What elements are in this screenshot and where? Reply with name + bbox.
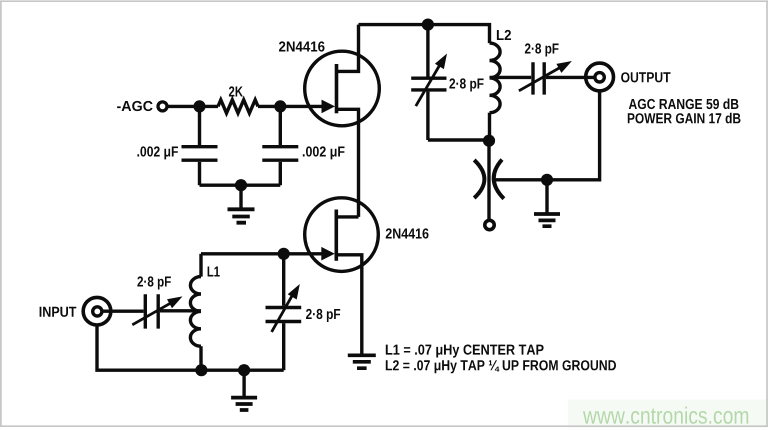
capacitor CV4 bottom lead bbox=[282, 323, 285, 370]
capacitor CV2 arrow bbox=[519, 67, 561, 91]
node B (gate node Q1) bbox=[274, 100, 286, 112]
wire INPUT ground bus bbox=[97, 325, 284, 370]
capacitor CV4 plates bbox=[266, 308, 302, 322]
capacitor CV3 arrow bbox=[132, 302, 172, 325]
ground G4 bars bbox=[231, 398, 257, 410]
wire L1 top to node G bbox=[201, 252, 284, 255]
label INPUT bbox=[40, 307, 77, 317]
label POWER GAIN 17 dB bbox=[628, 113, 741, 124]
wire L2 link line down bbox=[487, 141, 490, 221]
node H (L1 bottom node) bbox=[195, 364, 207, 376]
Q1 gate arrow bbox=[322, 100, 336, 114]
capacitor CV1 plates bbox=[411, 78, 446, 90]
label 2K bbox=[229, 86, 243, 96]
node G (gate node Q2) bbox=[278, 248, 290, 260]
Q2 drain lead bbox=[336, 215, 358, 218]
watermark band bbox=[568, 399, 768, 427]
terminal OUTPUT inner bbox=[595, 73, 604, 82]
wire output down to link bbox=[496, 91, 600, 180]
resistor R1 2K bbox=[218, 100, 258, 113]
label 2-8 pF (CV1) bbox=[449, 78, 483, 91]
wire CV3 to L1 bbox=[160, 309, 201, 312]
Q1 drain lead bbox=[337, 25, 359, 72]
note L1 spec bbox=[386, 345, 544, 358]
capacitor CV2 plates bbox=[533, 62, 544, 94]
inductor L1 coil bbox=[190, 277, 201, 347]
capacitor CV3 plates bbox=[145, 294, 158, 328]
transistor Q1 2N4416 body bbox=[305, 51, 380, 126]
wire node G to Q2 gate bbox=[284, 252, 323, 255]
capacitor CV1 top lead bbox=[426, 25, 429, 77]
node I (input ground node) bbox=[238, 364, 250, 376]
wire resistor R1 to node B bbox=[258, 105, 280, 108]
terminal -AGC bbox=[158, 102, 167, 111]
label 2-8 pF (CV4) bbox=[306, 309, 340, 322]
capacitor C2 bottom lead bbox=[279, 162, 282, 185]
wire CV1 to node E bbox=[428, 138, 489, 141]
Q1 source lead bbox=[337, 109, 359, 217]
terminal OUTPUT outer bbox=[586, 63, 614, 91]
node E (L2 bottom node) bbox=[483, 135, 495, 147]
label -AGC bbox=[117, 101, 153, 111]
wire CV2 to output terminal bbox=[546, 76, 595, 79]
capacitor CV4 top lead bbox=[282, 254, 285, 306]
wire node A to resistor R1 bbox=[200, 105, 219, 108]
capacitor C1 .002uF left lead bbox=[198, 106, 201, 145]
capacitor C2 .002uF top lead bbox=[279, 106, 282, 145]
link coupling arc left bbox=[474, 160, 484, 198]
capacitor C1 plates bbox=[182, 147, 218, 161]
capacitor CV4 arrow bbox=[272, 292, 295, 332]
node A (AGC node) bbox=[193, 100, 205, 112]
capacitor CV1 arrow bbox=[416, 62, 442, 106]
wire AGC terminal to node A bbox=[167, 105, 200, 108]
label .002uF left bbox=[137, 146, 178, 159]
ground G3 bars bbox=[534, 214, 560, 226]
label 2N4416 bottom bbox=[386, 228, 429, 238]
node C (filter ground node) bbox=[235, 179, 247, 191]
ground G1 bars bbox=[228, 209, 255, 222]
wire INPUT to CV3 bbox=[103, 310, 144, 313]
capacitor CV1 bottom lead bbox=[426, 92, 429, 140]
terminal L2 bottom open circle bbox=[485, 220, 494, 229]
terminal INPUT inner bbox=[93, 307, 102, 316]
terminal INPUT outer bbox=[83, 297, 111, 325]
node F (link ground node) bbox=[541, 174, 553, 186]
link coupling arc right bbox=[494, 160, 504, 199]
Q2 source lead bbox=[336, 255, 362, 354]
capacitor C2 plates bbox=[262, 147, 298, 161]
label 2-8 pF (CV2) bbox=[525, 43, 559, 56]
inductor L1 top lead bbox=[199, 254, 202, 277]
Q2 channel bar bbox=[334, 210, 338, 261]
node D (drain rail node) bbox=[422, 19, 434, 31]
inductor L2 coil bbox=[490, 43, 501, 113]
wire L2 tap to CV2 bbox=[490, 76, 532, 79]
inductor L1 bottom lead bbox=[199, 346, 202, 370]
Q1 channel bar bbox=[335, 64, 339, 113]
wire node B to Q1 gate bbox=[280, 105, 323, 108]
label 2N4416 top bbox=[279, 41, 325, 51]
label 2-8 pF (CV3) bbox=[137, 276, 171, 289]
wire C1/C2 bottom bus bbox=[200, 183, 281, 186]
wire top rail bbox=[359, 25, 490, 43]
ground G4 stem bbox=[242, 370, 245, 397]
label .002uF right bbox=[303, 146, 345, 159]
wire L2 bottom bbox=[488, 113, 491, 141]
label OUTPUT bbox=[621, 72, 670, 82]
label L2 bbox=[497, 30, 511, 40]
note L2 spec bbox=[386, 360, 616, 373]
ground G3 stem bbox=[545, 180, 548, 213]
Q2 gate arrow bbox=[321, 247, 335, 261]
label AGC RANGE 59 dB bbox=[629, 99, 739, 110]
transistor Q2 2N4416 body bbox=[305, 198, 379, 272]
ground G1 stem bbox=[239, 185, 242, 208]
label L1 bbox=[208, 267, 220, 277]
watermark text bbox=[583, 407, 748, 424]
capacitor C1 bottom lead bbox=[198, 162, 201, 185]
ground G2 bars (Q2 source) bbox=[348, 355, 376, 368]
